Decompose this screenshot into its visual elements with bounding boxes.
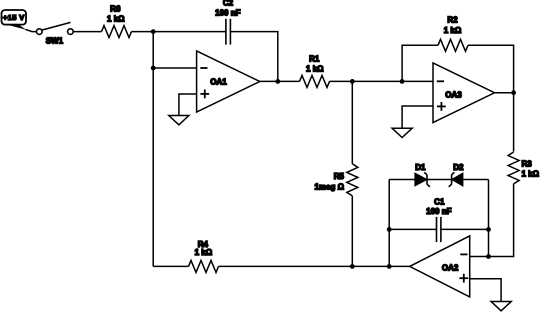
wire: bottom rail to R4 — [219, 265, 353, 267]
capacitor C2 — [226, 19, 231, 45]
wire: left rail — [152, 32, 154, 267]
wire: bottom rail (output to R5 node) — [352, 265, 389, 267]
svg-text:100 nF: 100 nF — [426, 207, 451, 216]
wire: D2 to box corner — [463, 179, 489, 181]
wire: C2 to OA1 output (feedback corner) — [230, 32, 277, 82]
wire: R2 to OA3 output riser — [468, 45, 514, 92]
wire: C1 right lead — [441, 228, 489, 230]
junction: OA3 output node — [511, 90, 516, 95]
resistor R2 — [438, 39, 468, 51]
wire: OA3 output — [495, 92, 514, 94]
wire: feedback box right side — [488, 180, 490, 257]
junction: R2 feedback tap — [400, 79, 405, 84]
resistor R3 — [508, 152, 519, 184]
svg-text:C2: C2 — [223, 0, 234, 7]
op-amp OA3 — [433, 63, 495, 123]
wire: R4 to left rail — [153, 265, 188, 267]
svg-text:R1: R1 — [309, 55, 320, 64]
wire: OA2 inverting input — [470, 256, 489, 258]
wire: R2 feedback left riser — [402, 45, 438, 81]
junction: OA2 inverting node — [486, 254, 491, 259]
wire: box corner to D1 anode — [389, 179, 415, 181]
wire: feedback box left side — [388, 180, 390, 267]
svg-text:+15 V: +15 V — [3, 13, 25, 22]
svg-text:1 kΩ: 1 kΩ — [306, 64, 324, 73]
svg-text:100 nF: 100 nF — [215, 8, 240, 17]
wire: OA3 non-inverting to ground — [402, 106, 433, 128]
svg-text:OA3: OA3 — [445, 90, 462, 99]
svg-text:R6: R6 — [110, 4, 121, 13]
wire: R1 to OA3 inverting input — [330, 80, 434, 82]
svg-text:C1: C1 — [434, 198, 445, 207]
wire: C1 left lead — [389, 228, 436, 230]
ground (OA2) — [491, 302, 511, 311]
svg-text:1meg Ω: 1meg Ω — [314, 182, 344, 191]
svg-text:R3: R3 — [522, 160, 533, 169]
wire: OA2 output — [389, 265, 410, 267]
resistor R5 — [347, 164, 358, 196]
wire: D1 to D2 — [427, 179, 452, 181]
resistor R1 — [300, 75, 330, 87]
ground (OA1) — [169, 116, 189, 125]
junction: R5 bottom node — [350, 264, 355, 269]
wire: R5 top lead — [351, 81, 353, 163]
wire: OA1 output — [260, 80, 300, 82]
op-amp OA2 — [410, 236, 470, 297]
junction: node B (R1/R5) — [350, 79, 355, 84]
resistor R4 — [189, 260, 219, 272]
wire: node A to C2 — [153, 31, 226, 33]
svg-text:D1: D1 — [415, 163, 426, 172]
wire: R3 down to OA2 inverting node — [489, 184, 514, 257]
junction: node A (top left) — [151, 29, 156, 34]
wire: SW1 to R6 — [73, 31, 102, 33]
wire: to OA1 inverting input — [153, 67, 196, 69]
junction: OA2 output / feedback node — [387, 264, 392, 269]
switch SW1 — [37, 22, 74, 34]
wire: OA2 non-inverting to ground — [470, 279, 501, 302]
svg-text:OA1: OA1 — [210, 78, 227, 87]
svg-text:OA2: OA2 — [442, 263, 459, 272]
svg-text:SW1: SW1 — [46, 37, 64, 46]
wire: R6 to node A — [132, 31, 154, 33]
op-amp OA1 — [197, 51, 260, 112]
wire: right rail to R3 — [513, 93, 515, 152]
wire: R5 bottom lead — [351, 196, 353, 267]
diode D1 — [415, 172, 430, 186]
supply +15V flag — [2, 10, 27, 30]
junction: OA1 inverting branch — [151, 66, 156, 71]
svg-text:D2: D2 — [453, 163, 464, 172]
svg-text:1 kΩ: 1 kΩ — [195, 248, 213, 257]
svg-text:1 kΩ: 1 kΩ — [107, 15, 125, 24]
svg-text:1 kΩ: 1 kΩ — [522, 170, 540, 179]
junction: C1 left node — [387, 227, 392, 232]
wire: flag to SW1 — [26, 29, 37, 31]
svg-text:1 kΩ: 1 kΩ — [444, 26, 462, 35]
resistor R6 — [102, 26, 132, 38]
ground (OA3) — [392, 128, 412, 137]
capacitor C1 — [437, 217, 441, 242]
diode D2 — [449, 172, 463, 186]
svg-text:R5: R5 — [334, 172, 345, 181]
junction: C1 right node — [486, 227, 491, 232]
junction: OA1 output node — [275, 79, 280, 84]
svg-text:R2: R2 — [447, 15, 458, 24]
wire: OA1 non-inverting to ground — [179, 94, 197, 116]
